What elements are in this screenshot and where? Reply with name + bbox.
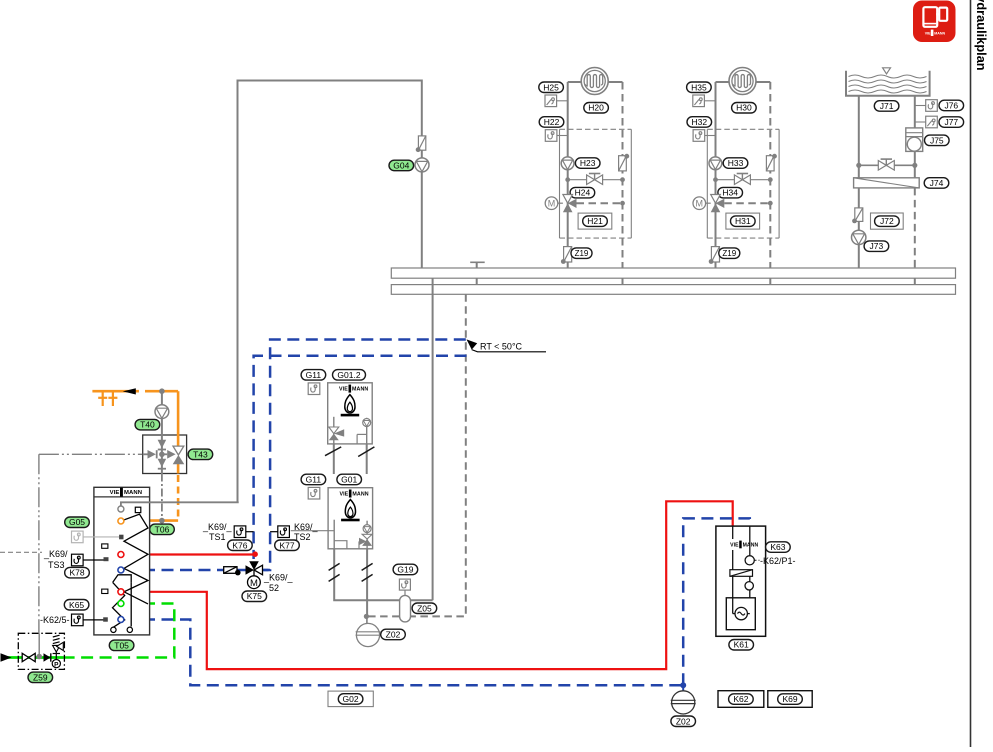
svg-text:MANN: MANN bbox=[743, 542, 759, 548]
label H30 bbox=[732, 103, 757, 114]
svg-text:VIE: VIE bbox=[925, 31, 931, 35]
label H35 bbox=[687, 82, 712, 93]
svg-text:H35: H35 bbox=[691, 82, 707, 92]
svg-text:M: M bbox=[548, 199, 556, 209]
svg-text:Z05: Z05 bbox=[417, 603, 432, 613]
svg-text:J77: J77 bbox=[944, 117, 958, 127]
wire blue tank to valve bbox=[125, 569, 246, 572]
collector symbol a bbox=[98, 391, 107, 406]
svg-text:J72: J72 bbox=[880, 216, 894, 226]
svg-text:G11: G11 bbox=[306, 475, 322, 485]
wire G01.2 left pipe stub bbox=[333, 444, 335, 474]
label H22 bbox=[539, 117, 564, 128]
junction boiler return bbox=[364, 614, 369, 619]
pipe break G01 right b bbox=[362, 574, 373, 581]
svg-text:G01: G01 bbox=[341, 475, 357, 485]
label Z05 bbox=[412, 603, 437, 614]
burner bar G01 bbox=[341, 519, 360, 522]
label G19 bbox=[393, 564, 418, 575]
wire solar gray to T43 bbox=[161, 419, 163, 436]
wire red tank to valve junction bbox=[125, 553, 256, 555]
label H25 bbox=[539, 82, 564, 93]
wire blue tank to K61 bbox=[125, 620, 684, 686]
wire solar supply orange top2 bbox=[145, 390, 178, 393]
wire green through Z59 bbox=[2, 656, 64, 659]
sensor G19 bbox=[399, 579, 410, 590]
mixing valve H34 bbox=[711, 195, 725, 213]
boiler G01 box bbox=[328, 488, 373, 549]
pump internal G01.2 bbox=[366, 418, 368, 444]
svg-text:K63: K63 bbox=[770, 542, 785, 552]
tank K78 target bbox=[104, 557, 109, 561]
tank small square top bbox=[135, 507, 141, 512]
tank port 1 bbox=[118, 506, 124, 512]
svg-text:G11: G11 bbox=[306, 370, 322, 380]
tank port 4 (blue) bbox=[118, 567, 124, 573]
control line Z59 inside bbox=[38, 633, 40, 655]
label K61 bbox=[729, 640, 754, 651]
text K62/P1 bbox=[755, 559, 760, 561]
K61 pump upper bbox=[745, 556, 754, 565]
sensor G11 (upper) bbox=[308, 383, 320, 395]
tank port 3 (red) bbox=[118, 552, 124, 558]
svg-text:J73: J73 bbox=[870, 241, 884, 251]
svg-text:TS3: TS3 bbox=[48, 560, 65, 570]
manifold bar 2 (return header) bbox=[391, 285, 955, 295]
T43 internal vertical bbox=[161, 435, 163, 474]
wire solar orange down bbox=[177, 391, 180, 446]
svg-text:H24: H24 bbox=[575, 188, 591, 198]
label K75 bbox=[242, 591, 267, 602]
svg-text:_K69/_: _K69/_ bbox=[202, 522, 233, 532]
svg-text:MANN: MANN bbox=[934, 31, 945, 35]
wire G01.2 right pipe stub bbox=[366, 444, 368, 474]
K61 heat exchanger bbox=[730, 570, 753, 577]
wire sensor J77 tap bbox=[915, 121, 927, 123]
wire separator top port bbox=[411, 599, 433, 601]
wire radiator top feed bbox=[568, 81, 582, 83]
svg-text:RT < 50°C: RT < 50°C bbox=[480, 342, 523, 352]
svg-text:K76: K76 bbox=[232, 540, 247, 550]
K61 wordmark bbox=[730, 541, 758, 549]
svg-text:_K69/_: _K69/_ bbox=[263, 573, 294, 583]
sensor J76 bbox=[926, 100, 938, 112]
label G04 bbox=[389, 160, 414, 171]
label H33 bbox=[723, 158, 748, 169]
svg-text:K69: K69 bbox=[782, 694, 797, 704]
svg-text:K78: K78 bbox=[69, 568, 84, 578]
svg-text:K65: K65 bbox=[69, 600, 84, 610]
svg-text:K61: K61 bbox=[734, 640, 749, 650]
svg-text:_K69/: _K69/ bbox=[43, 549, 68, 559]
pipe break G01 left a bbox=[329, 563, 340, 570]
control boundary box H21 bbox=[560, 129, 632, 238]
solar station T43 box bbox=[143, 435, 187, 474]
K61 burner bbox=[733, 598, 750, 620]
svg-text:TS1: TS1 bbox=[209, 532, 226, 542]
wire sensor K77 to boiler bbox=[291, 530, 335, 532]
sensor H22 (flow) bbox=[545, 130, 557, 142]
svg-text:VIE: VIE bbox=[730, 542, 739, 548]
expansion vessel Z02 (bottom) bbox=[671, 685, 696, 714]
wire bypass branch bbox=[568, 179, 623, 181]
svg-text:H31: H31 bbox=[735, 216, 751, 226]
svg-text:T06: T06 bbox=[155, 524, 170, 534]
wire K69/TS3 stub bbox=[0, 551, 42, 553]
wire sensor H22 tap bbox=[557, 135, 568, 137]
page frame border right bbox=[970, 0, 972, 747]
valve Z59 inlet bbox=[22, 653, 35, 661]
svg-text:J71: J71 bbox=[880, 101, 894, 111]
label K69 boxed bbox=[768, 691, 812, 708]
svg-text:T05: T05 bbox=[114, 640, 129, 650]
mixer motor M H34 bbox=[693, 197, 711, 210]
sensor K78 bbox=[72, 554, 84, 566]
wire return stub between bars bbox=[622, 278, 624, 284]
wire pool right pipe mid bbox=[914, 151, 916, 177]
svg-text:G05: G05 bbox=[69, 517, 85, 527]
wire mixer return dashed bbox=[724, 202, 770, 204]
junction bypass left bbox=[565, 177, 570, 182]
svg-text:K62: K62 bbox=[733, 694, 748, 704]
burner flame G01.2 bbox=[345, 395, 355, 413]
wire K78 tap bbox=[83, 559, 104, 561]
pump G04 bbox=[415, 158, 429, 172]
label Z19 circuit H20 bbox=[571, 248, 592, 259]
label H20 bbox=[584, 103, 609, 114]
arrow cold water inlet bbox=[1, 653, 12, 661]
pump T40 bbox=[155, 405, 169, 419]
svg-text:Z19: Z19 bbox=[722, 249, 736, 258]
sensor G05 bbox=[72, 531, 84, 543]
label K62 boxed bbox=[718, 691, 764, 708]
wire green tank to Z59 bbox=[64, 604, 175, 658]
tank G05 target bbox=[119, 535, 123, 540]
wire port1 riser bbox=[121, 502, 239, 506]
svg-text:Z02: Z02 bbox=[386, 630, 401, 640]
wire pool return stub bbox=[914, 278, 916, 284]
K61 right pipe bbox=[749, 526, 751, 556]
pump H33 bbox=[709, 157, 722, 170]
radiator H30 bbox=[729, 68, 756, 95]
wire separator lower left dashed bbox=[366, 615, 399, 617]
burner bar G01.2 bbox=[341, 414, 360, 417]
svg-text:K77: K77 bbox=[279, 540, 294, 550]
pump J75 (inline) bbox=[906, 128, 923, 151]
T43 left arrow bbox=[143, 453, 149, 455]
sensor K77 bbox=[278, 526, 290, 538]
manifold thermometer well bbox=[476, 262, 478, 268]
label H34 bbox=[718, 187, 743, 198]
svg-text:G02: G02 bbox=[343, 694, 359, 704]
svg-text:J75: J75 bbox=[930, 135, 944, 145]
heat exchanger J74 bbox=[854, 178, 920, 188]
boiler G01 wordmark bbox=[339, 490, 368, 498]
arrow to collectors bbox=[123, 388, 136, 394]
label T40 bbox=[135, 419, 160, 430]
svg-text:-K62/P1-: -K62/P1- bbox=[760, 556, 796, 566]
tank bottom port a bbox=[111, 627, 116, 632]
burner flame G01 bbox=[345, 500, 355, 518]
junction pool bypass left bbox=[856, 163, 861, 168]
sensor G11 (lower) bbox=[308, 487, 320, 499]
boiler G01.2 wordmark bbox=[339, 385, 368, 393]
mixer motor M H24 bbox=[545, 197, 563, 210]
svg-text:MANN: MANN bbox=[352, 491, 368, 497]
sensor K76 bbox=[234, 526, 246, 538]
label H21 boxed bbox=[578, 213, 612, 229]
label T05 bbox=[109, 640, 134, 651]
valve Z19 circuit H20 bbox=[561, 247, 572, 264]
label H23 bbox=[575, 158, 600, 169]
wire sensor J76 tap bbox=[915, 105, 927, 107]
label K76 bbox=[228, 540, 253, 551]
svg-text:H25: H25 bbox=[543, 82, 559, 92]
T43 right arrow bbox=[164, 453, 167, 455]
collector symbol b bbox=[108, 391, 117, 406]
label G02 boxed bbox=[328, 691, 373, 707]
diverter valve G01.2 bbox=[329, 427, 344, 440]
T43 arrow down lower bbox=[158, 459, 167, 467]
sensor H25 (outdoor) bbox=[545, 95, 557, 107]
check valve Z59 bbox=[44, 653, 51, 661]
label G01.2 bbox=[333, 370, 366, 381]
tank bottom port b bbox=[127, 627, 132, 632]
wire G01.2 internal left bbox=[333, 417, 335, 444]
wire supply pipe H20 circuit bbox=[567, 82, 569, 268]
label K78 bbox=[65, 567, 90, 578]
tank port 6 (green) bbox=[118, 601, 124, 607]
label H24 bbox=[570, 187, 595, 198]
svg-text:M: M bbox=[696, 199, 704, 209]
label G11 (upper) bbox=[301, 370, 326, 381]
tank T05 box bbox=[94, 487, 150, 635]
label T43 bbox=[188, 449, 213, 460]
wire bypass branch bbox=[716, 179, 771, 181]
wire solar gray below T43 bbox=[161, 474, 163, 518]
label K65 bbox=[64, 600, 89, 611]
control line down to Z59 bbox=[38, 454, 40, 633]
wire pool bypass bbox=[859, 164, 915, 166]
valve J72 area check bbox=[852, 208, 863, 223]
check valve above G04 bbox=[416, 136, 426, 152]
label J75 bbox=[925, 135, 950, 146]
junction solar bottom bbox=[159, 518, 165, 524]
svg-text:H23: H23 bbox=[580, 158, 596, 168]
wire solar orange down2 bbox=[177, 464, 180, 474]
svg-text:G01.2: G01.2 bbox=[337, 370, 360, 380]
hydraulic separator Z05 bbox=[400, 595, 411, 622]
svg-text:M: M bbox=[250, 578, 258, 589]
wire pool left pipe bbox=[858, 96, 860, 268]
svg-text:J76: J76 bbox=[944, 101, 958, 111]
boiler G01.2 box bbox=[328, 383, 373, 444]
pressure gauge P bbox=[52, 658, 60, 669]
junction pool bypass right bbox=[912, 163, 917, 168]
label J72 boxed bbox=[871, 213, 904, 229]
pipe break G01 left b bbox=[329, 574, 340, 581]
wire blue upper (to mixer right) bbox=[264, 340, 466, 571]
junction mixer return bbox=[620, 201, 625, 206]
sensor H35 (outdoor) bbox=[693, 95, 705, 107]
T43 center junction bbox=[159, 452, 165, 458]
mixer motor M K75 bbox=[248, 570, 261, 589]
expansion vessel Z02 (boiler) bbox=[356, 616, 381, 646]
wire G05 line right bbox=[83, 536, 119, 538]
overflow valve H20 circuit bbox=[619, 154, 630, 171]
label G01 bbox=[337, 474, 362, 485]
control line T43 to left bbox=[39, 453, 143, 455]
pump J73 bbox=[852, 230, 866, 244]
label H32 bbox=[687, 117, 712, 128]
label J74 bbox=[924, 178, 949, 189]
K61 pump lower bbox=[749, 576, 751, 581]
svg-text:-K62/5-: -K62/5- bbox=[40, 615, 70, 625]
wire pool right pipe upper bbox=[914, 96, 916, 131]
control boundary box H31 bbox=[707, 129, 779, 238]
wire sensor H25 tap bbox=[557, 100, 568, 102]
label Z59 bbox=[28, 672, 53, 683]
wire G01 internal step bbox=[334, 541, 347, 549]
overflow valve H30 circuit bbox=[766, 154, 776, 171]
svg-text:Z02: Z02 bbox=[676, 716, 691, 726]
wire G01 internal left bbox=[333, 520, 335, 549]
tank port 2 (solar) bbox=[118, 518, 124, 524]
wire G01 supply down-left bbox=[334, 549, 399, 600]
wire solar gray return bbox=[161, 391, 163, 405]
svg-text:H22: H22 bbox=[544, 117, 560, 127]
label G05 bbox=[65, 517, 90, 528]
tank coil lower zigzag bbox=[113, 582, 125, 627]
pipe break G01.2 right bbox=[358, 447, 374, 457]
wire radiator top feed bbox=[716, 81, 730, 83]
tank pocket a bbox=[102, 544, 108, 548]
wire G01.2 internal step bbox=[356, 434, 358, 444]
svg-text:VIE: VIE bbox=[339, 386, 348, 392]
pipe break G01 right a bbox=[362, 563, 373, 570]
wire blue lower (to mixer top) bbox=[254, 356, 467, 559]
note arrow RT<50 bbox=[467, 339, 478, 349]
svg-text:52: 52 bbox=[269, 583, 279, 593]
manifold bar 1 (supply header) bbox=[391, 268, 955, 278]
sensor K62/5 bbox=[72, 614, 84, 626]
tank coil upper bbox=[121, 514, 148, 604]
T43 arrow down upper bbox=[158, 440, 167, 448]
svg-text:Z59: Z59 bbox=[33, 672, 48, 682]
pump H23 bbox=[561, 157, 574, 170]
sensor J77 (contact) bbox=[926, 116, 938, 128]
wire return pipe dashed H20 circuit bbox=[622, 82, 624, 268]
tank coil lower trapezoid bbox=[113, 575, 132, 583]
T43 valve bbox=[173, 446, 184, 455]
wire G04 riser bbox=[238, 81, 422, 503]
wire manifold return dashed to separator bbox=[411, 294, 466, 616]
valve Z19 circuit H30 bbox=[709, 247, 720, 264]
valve pool bypass bbox=[878, 159, 894, 170]
svg-text:K69/_: K69/_ bbox=[294, 522, 319, 532]
svg-text:H21: H21 bbox=[587, 216, 603, 226]
wire sensor G19 stem bbox=[404, 590, 406, 595]
svg-text:MANN: MANN bbox=[352, 386, 368, 392]
label G11 (lower) bbox=[301, 474, 326, 485]
tank pocket b bbox=[102, 589, 108, 593]
diverter valve G01 right bbox=[359, 534, 372, 549]
label J73 bbox=[864, 241, 889, 252]
wire K62/5 tap bbox=[83, 619, 103, 621]
label Z02 (boiler) bbox=[381, 629, 406, 640]
boundary box Z59 bbox=[18, 633, 64, 669]
mixing valve K75 (black) bbox=[246, 561, 263, 575]
label T06 bbox=[150, 524, 175, 535]
junction bypass left bbox=[713, 177, 718, 182]
radiator H20 bbox=[581, 68, 608, 95]
junction solar top bbox=[159, 388, 165, 394]
mixing valve H24 bbox=[563, 195, 577, 213]
svg-text:T43: T43 bbox=[193, 449, 208, 459]
svg-text:Hydraulikplan: Hydraulikplan bbox=[974, 0, 989, 71]
wire sensor H32 tap bbox=[705, 135, 716, 137]
wire solar orange bottom bbox=[124, 519, 178, 522]
junction red on blue bbox=[252, 551, 258, 557]
wire K77 tap bbox=[270, 531, 278, 533]
label K77 bbox=[275, 540, 300, 551]
tank T05 wordmark bbox=[110, 488, 142, 497]
wire red tank to K61 bbox=[125, 501, 733, 669]
junction mixer return bbox=[768, 201, 773, 206]
label J77 bbox=[939, 117, 964, 128]
wire solar supply orange top bbox=[92, 390, 138, 393]
wire manifold riser to separator bbox=[432, 278, 434, 600]
svg-text:J74: J74 bbox=[930, 178, 944, 188]
svg-text:H34: H34 bbox=[722, 188, 738, 198]
wire supply pipe H30 circuit bbox=[715, 82, 717, 268]
wire mixer return dashed bbox=[577, 202, 623, 204]
svg-text:H20: H20 bbox=[588, 103, 604, 113]
K61 left pipe bbox=[732, 526, 734, 539]
wire G01 return down-right bbox=[366, 549, 368, 617]
label K63 bbox=[766, 542, 791, 553]
tank coil lower return bbox=[130, 582, 132, 626]
wire blue riser to K61 bbox=[683, 518, 750, 685]
svg-text:T40: T40 bbox=[140, 420, 155, 430]
label J76 bbox=[939, 100, 964, 111]
sensor H32 (flow) bbox=[693, 130, 705, 142]
svg-text:H33: H33 bbox=[728, 158, 744, 168]
K61 burner box bbox=[726, 598, 755, 630]
tank K62/5 target bbox=[103, 617, 108, 621]
balancing valve H20 circuit bbox=[587, 174, 603, 185]
svg-text:P: P bbox=[54, 661, 59, 668]
wire return pipe dashed H30 circuit bbox=[769, 82, 771, 268]
junction bypass right bbox=[768, 177, 773, 182]
wire pool return dashed bbox=[914, 188, 916, 268]
junction blue Z02 bbox=[680, 682, 686, 688]
svg-text:H32: H32 bbox=[692, 117, 708, 127]
label Z19 circuit H30 bbox=[719, 248, 740, 259]
K61 box bbox=[716, 526, 766, 636]
balancing valve H30 circuit bbox=[734, 174, 750, 185]
svg-text:K75: K75 bbox=[247, 591, 262, 601]
tank port 7 (blue) bbox=[118, 617, 124, 623]
label J71 bbox=[874, 101, 899, 112]
label Z02 (bottom) bbox=[671, 716, 696, 727]
wire sensor H35 tap bbox=[704, 100, 715, 102]
wire return stub between bars bbox=[769, 278, 771, 284]
safety valve Z59 bbox=[53, 635, 64, 657]
svg-text:MANN: MANN bbox=[124, 490, 142, 496]
tank T05 header line bbox=[94, 496, 150, 498]
wire solar orange dashes bbox=[177, 475, 180, 521]
